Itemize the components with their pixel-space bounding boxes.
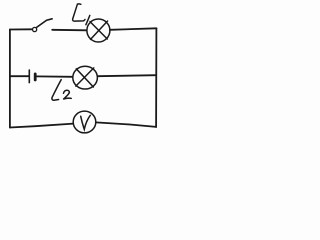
wire switch to lamp L1: [52, 29, 87, 32]
battery cell long plate: [28, 70, 30, 83]
wire middle-left segment: [10, 75, 28, 77]
wire left rail: [9, 30, 11, 128]
lamp L2: [73, 66, 98, 89]
switch S1 pivot: [33, 27, 37, 31]
lamp L1: [87, 19, 110, 42]
wire bottom-left segment: [10, 124, 74, 128]
wire voltmeter to right rail: [96, 122, 156, 127]
battery cell short plate: [34, 74, 37, 80]
wire lamp L2 to right rail: [98, 75, 157, 76]
wire battery to lamp L2: [37, 75, 73, 77]
wire right rail: [155, 28, 157, 127]
wire lamp L1 to right rail: [110, 28, 156, 30]
voltmeter V: [73, 111, 96, 133]
label L1: [73, 4, 90, 25]
label L2: [52, 80, 71, 101]
wire top-left segment: [10, 28, 32, 30]
switch S1 lever: [36, 19, 52, 28]
